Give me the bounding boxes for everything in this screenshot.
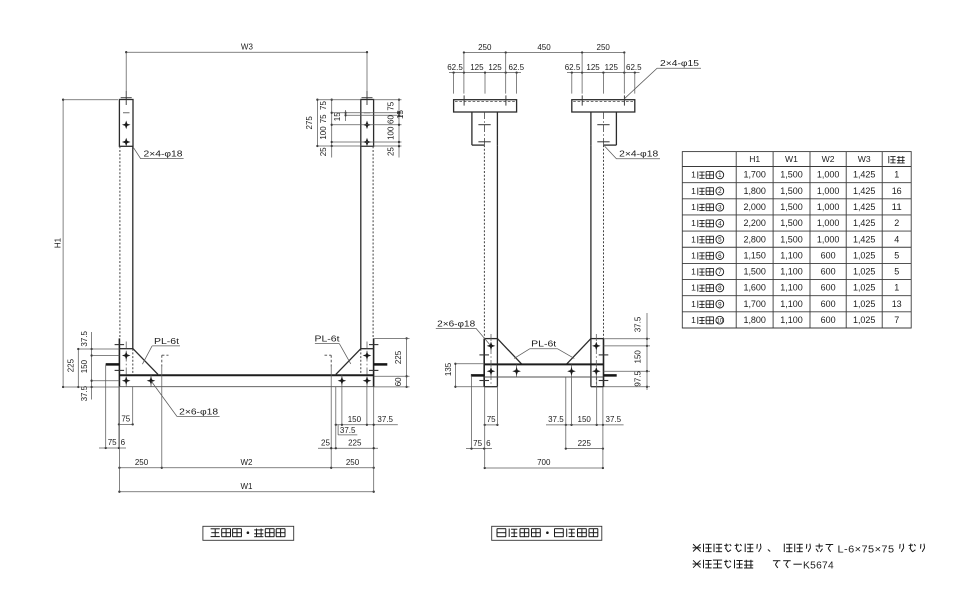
- front view: right post upper holes: [363, 121, 372, 130]
- svg-text:1,025: 1,025: [853, 315, 876, 325]
- svg-text:7: 7: [718, 269, 722, 276]
- dimension 37.5/150/37.5 side bottom: [546, 424, 624, 426]
- front view: right gusset plate PL-6t: [361, 348, 374, 350]
- side view: left plate hole marks: [463, 95, 465, 105]
- side view: left post lower section: [483, 339, 485, 387]
- svg-text:4: 4: [894, 234, 899, 244]
- svg-text:1: 1: [718, 172, 722, 179]
- svg-text:100: 100: [387, 126, 396, 140]
- svg-text:37.5: 37.5: [80, 385, 89, 401]
- svg-text:125: 125: [470, 63, 484, 72]
- svg-text:W1: W1: [785, 154, 798, 164]
- dimension 62.5/125/125/62.5 right: [567, 72, 640, 74]
- svg-text:125: 125: [488, 63, 502, 72]
- dimension 150/37.5 right lower: [336, 424, 398, 426]
- svg-text:75: 75: [487, 415, 496, 424]
- svg-text:150: 150: [633, 350, 642, 364]
- svg-text:37.5: 37.5: [606, 415, 622, 424]
- front view: gusset holes: [122, 351, 131, 360]
- extension lines side right: [604, 338, 651, 340]
- dimension W3: [126, 51, 367, 53]
- svg-text:1,000: 1,000: [817, 234, 840, 244]
- svg-text:135: 135: [444, 362, 453, 376]
- svg-text:450: 450: [537, 43, 551, 52]
- svg-text:75: 75: [473, 439, 482, 448]
- dimension 37.5 offset label right lower: [337, 425, 339, 435]
- svg-text:W2: W2: [241, 458, 254, 467]
- svg-text:150: 150: [80, 359, 89, 373]
- dimension 250/450/250 top: [464, 52, 624, 54]
- svg-text:1: 1: [691, 299, 696, 309]
- dimension 62.5/125/125/62.5 left: [449, 72, 521, 74]
- svg-text:62.5: 62.5: [565, 63, 581, 72]
- leader 2x4-phi18 front: [133, 147, 183, 158]
- svg-text:150: 150: [578, 415, 592, 424]
- side view: right block centerline and bolt ticks: [603, 112, 605, 145]
- front view: left post bolt ticks: [115, 344, 125, 346]
- svg-text:150: 150: [348, 415, 362, 424]
- svg-text:W3: W3: [241, 43, 254, 52]
- svg-text:75: 75: [108, 438, 117, 447]
- leader 2x4-phi18 side: [605, 146, 660, 159]
- svg-text:2,800: 2,800: [743, 234, 766, 244]
- front view: left post top centerline cross: [125, 91, 127, 105]
- svg-text:1,500: 1,500: [780, 202, 803, 212]
- view label box: front/back view: [203, 526, 294, 540]
- side view: left block centerline and bolt ticks: [483, 112, 485, 145]
- svg-text:600: 600: [821, 283, 836, 293]
- dimension H1: [62, 100, 64, 387]
- svg-text:75: 75: [319, 114, 328, 123]
- svg-text:1,500: 1,500: [743, 267, 766, 277]
- svg-text:250: 250: [346, 458, 360, 467]
- svg-text:PL-6t: PL-6t: [315, 335, 341, 344]
- svg-text:1,500: 1,500: [780, 218, 803, 228]
- side view: right plate hole marks: [581, 95, 583, 105]
- extension lines right lower: [335, 387, 337, 448]
- front view: beam bend line left (hidden): [161, 355, 163, 367]
- front view: right post top box: [361, 100, 374, 147]
- svg-text:1: 1: [894, 283, 899, 293]
- svg-text:1,100: 1,100: [780, 267, 803, 277]
- front view: right post body hidden edge: [372, 146, 374, 338]
- svg-text:25: 25: [387, 147, 396, 156]
- front view: right post lower solid edge: [373, 338, 375, 386]
- svg-text:2: 2: [718, 188, 722, 195]
- view label box: right/left side view: [492, 526, 602, 540]
- svg-text:1: 1: [691, 218, 696, 228]
- front view: left post body hidden edge: [119, 146, 121, 338]
- svg-text:W3: W3: [858, 154, 871, 164]
- svg-text:125: 125: [605, 63, 619, 72]
- svg-text:8: 8: [718, 285, 722, 292]
- svg-text:16: 16: [892, 186, 902, 196]
- front view: beam bend line right (hidden): [330, 355, 332, 367]
- svg-text:25: 25: [319, 147, 328, 156]
- svg-text:600: 600: [821, 315, 836, 325]
- svg-text:1: 1: [691, 283, 696, 293]
- svg-text:62.5: 62.5: [509, 63, 525, 72]
- svg-text:5: 5: [894, 267, 899, 277]
- svg-text:275: 275: [305, 116, 314, 130]
- extension lines side top: [463, 53, 465, 94]
- svg-text:2,200: 2,200: [743, 218, 766, 228]
- dimension 25/225 right lower: [318, 447, 378, 449]
- svg-text:W1: W1: [241, 482, 254, 491]
- svg-text:75: 75: [387, 101, 396, 110]
- svg-text:1,500: 1,500: [780, 170, 803, 180]
- front view: left post body visible edge: [132, 146, 134, 348]
- front view: left gusset plate PL-6t: [119, 348, 133, 350]
- svg-text:H1: H1: [54, 237, 63, 248]
- svg-text:1,025: 1,025: [853, 250, 876, 260]
- front view: right post hole centerline dash: [364, 112, 371, 114]
- svg-text:H1: H1: [749, 154, 760, 164]
- dimension 225 side bottom: [566, 448, 603, 450]
- dimension chain 37.5/150/37.5 left lower: [91, 332, 93, 400]
- side view: right top plate: [572, 100, 635, 112]
- svg-text:600: 600: [821, 299, 836, 309]
- svg-text:62.5: 62.5: [626, 63, 642, 72]
- svg-text:1,425: 1,425: [853, 234, 876, 244]
- front view: hole gauge line left post: [125, 342, 127, 387]
- svg-text:1,800: 1,800: [743, 186, 766, 196]
- dimension 250 right: [331, 467, 374, 469]
- svg-text:1,500: 1,500: [780, 234, 803, 244]
- dimension 225/60 front right: [406, 338, 408, 387]
- side view: beam bottom edge: [484, 376, 603, 378]
- front view: right post bolt ticks: [369, 344, 378, 346]
- side view: left post visible inner edge: [496, 145, 498, 339]
- front view: left post lower solid edge: [118, 338, 120, 386]
- svg-text:1,700: 1,700: [743, 299, 766, 309]
- svg-text:2×4-φ18: 2×4-φ18: [144, 150, 184, 159]
- svg-text:10: 10: [716, 317, 723, 324]
- svg-text:PL-6t: PL-6t: [154, 337, 180, 346]
- front view: right anchor bar: [374, 363, 388, 366]
- dimension chain 75/15/60/100/25 right post right side: [398, 100, 400, 158]
- svg-text:1,025: 1,025: [853, 267, 876, 277]
- svg-text:1,425: 1,425: [853, 202, 876, 212]
- svg-text:250: 250: [478, 43, 492, 52]
- svg-text:15: 15: [396, 110, 405, 119]
- dimension 275 right post: [316, 100, 318, 146]
- side view: left top plate: [454, 100, 517, 112]
- svg-text:1: 1: [691, 234, 696, 244]
- side view: beam holes: [487, 367, 496, 376]
- svg-text:1,425: 1,425: [853, 170, 876, 180]
- svg-text:W2: W2: [822, 154, 835, 164]
- svg-text:600: 600: [821, 250, 836, 260]
- svg-text:225: 225: [578, 439, 592, 448]
- svg-text:2×6-φ18: 2×6-φ18: [179, 407, 219, 416]
- dimension chain 75/75/100/25 right post left side: [331, 100, 333, 158]
- svg-text:7: 7: [894, 315, 899, 325]
- svg-text:1,025: 1,025: [853, 299, 876, 309]
- svg-text:75: 75: [121, 415, 130, 424]
- side view: right anchor bar: [604, 374, 617, 377]
- side view: beam top edge: [484, 363, 603, 365]
- svg-text:37.5: 37.5: [80, 330, 89, 346]
- svg-text:225: 225: [394, 350, 403, 364]
- svg-text:1,600: 1,600: [743, 283, 766, 293]
- dimension chain 37.5/150/97.5 side right: [646, 313, 648, 390]
- leader 2x6-phi18 side: [436, 328, 490, 344]
- svg-text:2: 2: [894, 218, 899, 228]
- extension lines left lower: [78, 348, 119, 350]
- side view: left gusset plate: [484, 338, 497, 340]
- svg-text:5: 5: [718, 237, 722, 244]
- front view: right post body visible edge: [360, 146, 362, 348]
- svg-text:37.5: 37.5: [633, 316, 642, 332]
- svg-text:1,100: 1,100: [780, 299, 803, 309]
- side view: right post lower section: [603, 339, 605, 387]
- svg-text:2×6-φ18: 2×6-φ18: [437, 319, 476, 328]
- side view: left post hidden outer edge: [483, 145, 485, 339]
- svg-text:PL-6t: PL-6t: [531, 340, 557, 349]
- svg-text:1: 1: [691, 202, 696, 212]
- svg-text:1: 1: [691, 267, 696, 277]
- extension lines side bottom: [484, 387, 486, 468]
- front view: beam holes: [122, 376, 131, 385]
- svg-text:37.5: 37.5: [548, 415, 564, 424]
- dimension W2: [162, 467, 331, 469]
- leader 2x4-phi15 side: [624, 68, 701, 99]
- label PL-6t front right: [315, 343, 339, 345]
- svg-text:3: 3: [718, 204, 722, 211]
- svg-text:62.5: 62.5: [447, 63, 463, 72]
- svg-text:11: 11: [892, 202, 902, 212]
- label PL-6t side: [530, 348, 558, 350]
- side view: right post hidden outer edge: [603, 145, 605, 339]
- front view: bottom beam top edge: [119, 374, 373, 376]
- svg-text:225: 225: [67, 358, 76, 372]
- svg-text:9: 9: [718, 301, 722, 308]
- front view: bottom beam bottom edge: [119, 386, 373, 388]
- svg-text:6: 6: [486, 439, 491, 448]
- svg-text:25: 25: [321, 438, 330, 447]
- svg-text:700: 700: [537, 458, 551, 467]
- svg-text:100: 100: [319, 126, 328, 140]
- extension lines right post left side: [317, 99, 360, 101]
- front view: right post top centerline cross: [366, 91, 368, 105]
- leader 2x6-phi18 front: [152, 382, 220, 417]
- note line 2: [693, 560, 700, 567]
- svg-text:6: 6: [121, 438, 126, 447]
- svg-text:60: 60: [394, 377, 403, 386]
- side view: gusset holes: [487, 342, 496, 351]
- svg-text:K5674: K5674: [803, 561, 834, 572]
- svg-text:1: 1: [691, 170, 696, 180]
- dimension 700 side bottom: [485, 467, 603, 469]
- svg-text:1: 1: [894, 170, 899, 180]
- svg-text:1,000: 1,000: [817, 186, 840, 196]
- svg-text:15: 15: [333, 112, 342, 121]
- svg-text:1,150: 1,150: [743, 250, 766, 260]
- svg-text:250: 250: [135, 458, 149, 467]
- front view: right post edge hidden behind gusset: [360, 349, 362, 375]
- svg-text:13: 13: [892, 299, 902, 309]
- svg-text:75: 75: [319, 101, 328, 110]
- svg-text:1,000: 1,000: [817, 218, 840, 228]
- svg-text:1,700: 1,700: [743, 170, 766, 180]
- svg-text:1,100: 1,100: [780, 283, 803, 293]
- svg-text:250: 250: [597, 43, 611, 52]
- front view: hole gauge line right post: [366, 342, 368, 387]
- svg-text:2,000: 2,000: [743, 202, 766, 212]
- svg-text:60: 60: [387, 115, 396, 124]
- svg-text:2×4-φ18: 2×4-φ18: [619, 150, 659, 159]
- side view: left connector block: [471, 112, 473, 145]
- svg-text:1: 1: [691, 186, 696, 196]
- front view: left post hole centerline dash: [123, 112, 130, 114]
- svg-text:2×4-φ15: 2×4-φ15: [660, 59, 700, 68]
- svg-text:1,500: 1,500: [780, 186, 803, 196]
- extension lines right post right side: [374, 99, 402, 101]
- front view: left post upper holes: [122, 121, 131, 130]
- dimension 75 side bottom: [485, 424, 498, 426]
- dimension 15 right post left side: [345, 110, 347, 121]
- side view: post bolt ticks: [479, 354, 489, 356]
- front view: left post edge hidden behind gusset: [132, 349, 134, 375]
- svg-text:37.5: 37.5: [377, 415, 393, 424]
- svg-text:1,000: 1,000: [817, 202, 840, 212]
- front view: left anchor bar: [106, 363, 120, 366]
- svg-text:1,425: 1,425: [853, 218, 876, 228]
- side view: post gauge lines: [490, 334, 492, 387]
- dimension 135 side: [454, 364, 456, 387]
- svg-text:1: 1: [691, 315, 696, 325]
- dimension W1: [119, 491, 373, 493]
- side view: right gusset plate: [591, 338, 604, 340]
- front view: beam hole gauge lines: [150, 375, 152, 387]
- svg-text:L-6×75×75: L-6×75×75: [838, 544, 895, 555]
- svg-text:1,800: 1,800: [743, 315, 766, 325]
- svg-text:1: 1: [691, 250, 696, 260]
- svg-text:1,000: 1,000: [817, 170, 840, 180]
- svg-text:1,100: 1,100: [780, 315, 803, 325]
- side view: right connector block: [615, 112, 617, 145]
- dimension 75/6 anchor left: [99, 447, 126, 449]
- svg-text:1,100: 1,100: [780, 250, 803, 260]
- side view: left anchor bar: [471, 374, 484, 377]
- side view: beam hole gauge lines: [516, 364, 518, 377]
- dimension 250 left: [119, 467, 161, 469]
- svg-text:4: 4: [718, 221, 722, 228]
- dimension 75/6 side bottom: [466, 448, 492, 450]
- svg-text:37.5: 37.5: [340, 426, 356, 435]
- dimension 75 post width lower left: [119, 423, 133, 425]
- svg-text:1,025: 1,025: [853, 283, 876, 293]
- svg-text:225: 225: [348, 438, 362, 447]
- svg-text:600: 600: [821, 267, 836, 277]
- svg-text:6: 6: [718, 253, 722, 260]
- front view: left post top box: [119, 100, 133, 147]
- specification table: [682, 152, 911, 328]
- note line 1: [693, 544, 700, 551]
- side view: right post visible inner edge: [590, 145, 592, 339]
- svg-text:1,425: 1,425: [853, 186, 876, 196]
- svg-text:125: 125: [586, 63, 600, 72]
- label PL-6t front left: [152, 345, 180, 347]
- dimension 225 left lower: [77, 349, 79, 387]
- svg-text:5: 5: [894, 250, 899, 260]
- svg-text:97.5: 97.5: [633, 370, 642, 386]
